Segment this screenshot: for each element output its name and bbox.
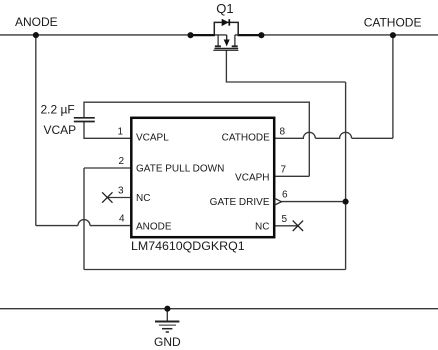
- svg-text:ANODE: ANODE: [15, 15, 58, 29]
- wire thick rail segment Q1 right to dot: [238, 34, 262, 36]
- node anode junction: [33, 32, 39, 38]
- no-connect X pin3: [102, 192, 112, 202]
- ground: [155, 322, 179, 333]
- wire pin5 stub: [274, 225, 298, 227]
- wire pin6 gate drive stub: [282, 201, 346, 203]
- svg-text:VCAPH: VCAPH: [235, 173, 269, 184]
- capacitor C1 plates: [74, 118, 95, 122]
- svg-text:6: 6: [282, 190, 288, 201]
- wire bottom ground rail: [0, 308, 438, 310]
- svg-text:GATE DRIVE: GATE DRIVE: [210, 197, 270, 208]
- Q1 substrate arrow: [224, 40, 230, 47]
- wire anode drop to pin 4: [35, 35, 37, 225]
- wire pin8 to cathode with two hops: [274, 132, 393, 138]
- svg-text:ANODE: ANODE: [136, 222, 172, 233]
- svg-text:7: 7: [281, 164, 287, 175]
- wire Q1 gate lead: [226, 50, 345, 82]
- wire gate bus bottom horizontal: [84, 269, 346, 271]
- wire pin2 vertical drop: [83, 168, 85, 270]
- node Q1 left junction: [187, 32, 193, 38]
- svg-text:CATHODE: CATHODE: [364, 15, 422, 29]
- svg-text:5: 5: [282, 214, 288, 225]
- svg-text:VCAPL: VCAPL: [136, 132, 169, 143]
- svg-text:VCAP: VCAP: [44, 123, 77, 137]
- wire pin3 stub: [107, 197, 131, 199]
- svg-text:NC: NC: [255, 222, 269, 233]
- node gate drive junction: [343, 199, 349, 205]
- svg-text:1: 1: [117, 126, 123, 137]
- svg-text:GND: GND: [154, 335, 181, 349]
- wire top cathode rail right part: [235, 34, 438, 36]
- wire pin2 stub: [84, 167, 131, 169]
- wire cathode drop: [392, 35, 394, 138]
- IC U1 LM74610QDGKRQ1 body: [131, 118, 274, 237]
- svg-text:Q1: Q1: [216, 1, 233, 16]
- node Q1 right junction: [258, 32, 264, 38]
- diode body of Q1: [222, 19, 229, 26]
- wire pin7 VCAPH stub: [274, 175, 309, 177]
- wire gate bus right vertical: [345, 82, 347, 270]
- node cathode junction: [390, 32, 396, 38]
- svg-text:8: 8: [280, 126, 286, 137]
- svg-text:2.2 µF: 2.2 µF: [41, 103, 75, 117]
- wire capacitor bottom to pin1: [84, 122, 131, 138]
- wire top anode rail left part: [0, 34, 227, 36]
- svg-text:NC: NC: [136, 193, 150, 204]
- svg-text:2: 2: [118, 156, 124, 167]
- svg-text:LM74610QDGKRQ1: LM74610QDGKRQ1: [131, 239, 245, 253]
- wire capacitor top to VCAPH: [84, 102, 309, 176]
- node ground junction: [164, 306, 170, 312]
- pin 6 output triangle: [275, 199, 282, 205]
- svg-text:4: 4: [119, 214, 125, 225]
- svg-text:3: 3: [118, 186, 124, 197]
- wire thick rail segment dot to Q1 left: [190, 34, 215, 36]
- wire pin4 stub with hop over gate-bus drop: [36, 220, 131, 226]
- svg-text:CATHODE: CATHODE: [222, 132, 270, 143]
- transistor Q1: [213, 22, 238, 50]
- no-connect X pin5: [293, 221, 303, 231]
- svg-text:GATE PULL DOWN: GATE PULL DOWN: [136, 163, 224, 174]
- wire ground stub: [166, 309, 168, 322]
